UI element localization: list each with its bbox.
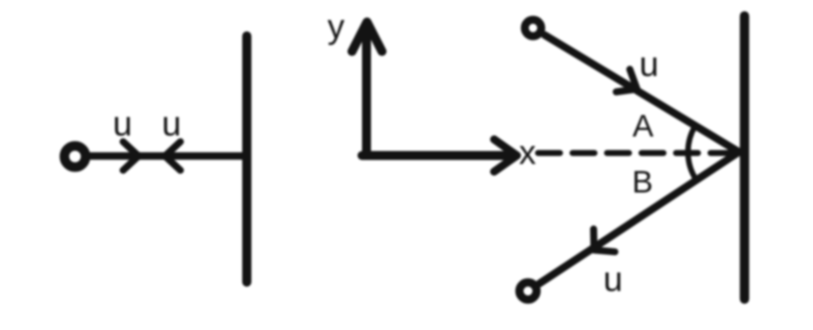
y-axis shaft bbox=[362, 27, 371, 156]
svg-text:A: A bbox=[632, 108, 653, 144]
svg-text:u: u bbox=[639, 45, 658, 84]
svg-text:u: u bbox=[603, 260, 622, 299]
x-axis shaft bbox=[362, 151, 513, 160]
svg-text:B: B bbox=[632, 164, 653, 200]
svg-text:u: u bbox=[162, 105, 181, 144]
y-axis arrowhead bbox=[352, 22, 382, 51]
x-axis arrowhead bbox=[494, 139, 517, 171]
wall W2 (right diagram) bbox=[740, 16, 749, 299]
wall W1 (left diagram) bbox=[242, 36, 251, 282]
ball P1 (left diagram, open circle) bbox=[64, 146, 85, 167]
wire: incident ray from ball P2 to wall W2 bbox=[545, 35, 739, 152]
angle arc at vertex on wall W2 bbox=[688, 126, 696, 180]
wire: velocity line from ball P1 to wall W1 bbox=[90, 152, 246, 160]
dashed normal line (along x direction) bbox=[538, 150, 736, 156]
svg-text:y: y bbox=[328, 8, 345, 46]
arrow: incident velocity u (toward wall) bbox=[616, 69, 637, 92]
arrow: initial velocity u (rightward) bbox=[123, 142, 138, 171]
ball P2 (incident ball, top right, open circle) bbox=[525, 20, 541, 36]
svg-text:x: x bbox=[519, 134, 536, 172]
svg-text:u: u bbox=[113, 105, 132, 144]
ball P3 (reflected ball, bottom right, open circle) bbox=[519, 282, 536, 299]
arrow: rebound velocity u (leftward) bbox=[165, 142, 180, 171]
arrow: reflected velocity u (away from wall) bbox=[594, 229, 615, 252]
wire: reflected ray from wall W2 to ball P3 bbox=[539, 152, 739, 284]
